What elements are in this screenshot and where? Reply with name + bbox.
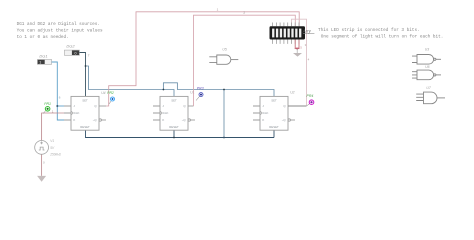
probe PR2: [107, 91, 115, 104]
svg-text:One segment of light will turn: One segment of light will turn on for ea…: [321, 34, 444, 39]
svg-text:PR4: PR4: [307, 94, 314, 98]
ground under V1: [37, 176, 46, 182]
junction DG1 net at J: [56, 105, 58, 107]
svg-text:250kHz: 250kHz: [49, 153, 61, 157]
svg-text:U5: U5: [222, 47, 226, 51]
svg-text:K: K: [73, 118, 75, 122]
svg-text:K: K: [262, 118, 264, 122]
flip-flop U1: [153, 96, 195, 130]
svg-text:PR1: PR1: [44, 102, 51, 106]
svg-text:SET: SET: [171, 98, 177, 102]
wire LED cathodes to ground (red): [295, 40, 300, 49]
flip-flop U4: [64, 96, 106, 130]
red arrowhead at LED ground: [296, 48, 300, 51]
digital source DG1: [37, 54, 51, 65]
junction SET-RESET tie top: [223, 89, 225, 91]
wire Q1 net to LED pin 8 (rose): [106, 12, 299, 106]
wire DG2 to SET/RESET net (slate net): [79, 53, 85, 97]
LED segments: [272, 29, 301, 38]
svg-text:U3: U3: [425, 47, 429, 51]
svg-text:RESET: RESET: [169, 125, 179, 129]
junction SET-RESET tie bottom: [223, 137, 225, 139]
svg-text:RESET: RESET: [269, 125, 279, 129]
gate U5 (2-input AND): [209, 55, 238, 64]
svg-text:V1: V1: [50, 139, 54, 143]
svg-text:PR2: PR2: [107, 91, 114, 95]
ground under LED: [293, 53, 302, 57]
svg-text:U6: U6: [425, 65, 429, 69]
gate U7 (3-input AND): [416, 92, 445, 104]
flip-flop U2: [253, 96, 295, 130]
LED body: [270, 26, 306, 39]
junction DG2 net at FF1 branch: [85, 65, 87, 67]
wire Q2 net to LED pin 7 (rose): [194, 15, 296, 106]
svg-text:0: 0: [75, 51, 77, 55]
junction DG2 net at FF2 SET: [163, 89, 165, 91]
LED bar array Arry: [270, 23, 315, 44]
svg-text:PR3: PR3: [197, 86, 204, 90]
svg-text:DG1 and DG2 are Digital source: DG1 and DG2 are Digital sources.: [17, 22, 100, 27]
probe PR1: [43, 102, 51, 113]
svg-text:1: 1: [39, 61, 41, 65]
svg-text:U1: U1: [190, 91, 194, 95]
clock source V1: [35, 141, 49, 155]
svg-text:CLK: CLK: [263, 111, 269, 115]
wire Q3 net to LED pin 6 (pale rose): [288, 105, 307, 107]
gate U6 (3-input NAND): [412, 70, 441, 80]
wire V1 to CLK of U4 (rose net): [42, 113, 64, 141]
wire RESET rail (dark navy): [86, 130, 275, 137]
svg-text:This LED strip is connected fo: This LED strip is connected for 3 bits.: [318, 28, 420, 33]
junction RESET FF2: [173, 137, 175, 139]
digital source DG2: [64, 43, 79, 55]
svg-text:CLK: CLK: [163, 111, 169, 115]
svg-text:to 1 or 0 as needed.: to 1 or 0 as needed.: [17, 35, 69, 40]
svg-text:Arry: Arry: [302, 29, 312, 34]
svg-text:K: K: [162, 118, 164, 122]
svg-text:DG1: DG1: [39, 54, 47, 59]
svg-text:You can adjust their input val: You can adjust their input values: [17, 28, 103, 33]
ground stem under LED: [296, 49, 298, 53]
V1 labels: [49, 139, 61, 156]
svg-text:U2: U2: [290, 91, 294, 95]
wire DG1 to J/K of U4 (blue net): [52, 62, 64, 120]
svg-text:CLK: CLK: [74, 111, 80, 115]
LED top pins: [273, 23, 299, 27]
svg-text:SET: SET: [271, 98, 277, 102]
svg-text:DG2: DG2: [66, 43, 75, 48]
comment note 2: [318, 28, 443, 39]
wire V1 to ground: [41, 154, 43, 176]
probe PR4: [307, 94, 315, 106]
comment note 1: [17, 22, 103, 40]
LED bottom pins: [273, 40, 299, 44]
svg-text:U7: U7: [426, 86, 430, 90]
svg-text:U4: U4: [101, 91, 105, 95]
svg-text:SET: SET: [82, 98, 88, 102]
probe PR3: [196, 86, 204, 100]
gate U3 (2-input NAND): [412, 55, 441, 65]
svg-text:RESET: RESET: [80, 125, 90, 129]
